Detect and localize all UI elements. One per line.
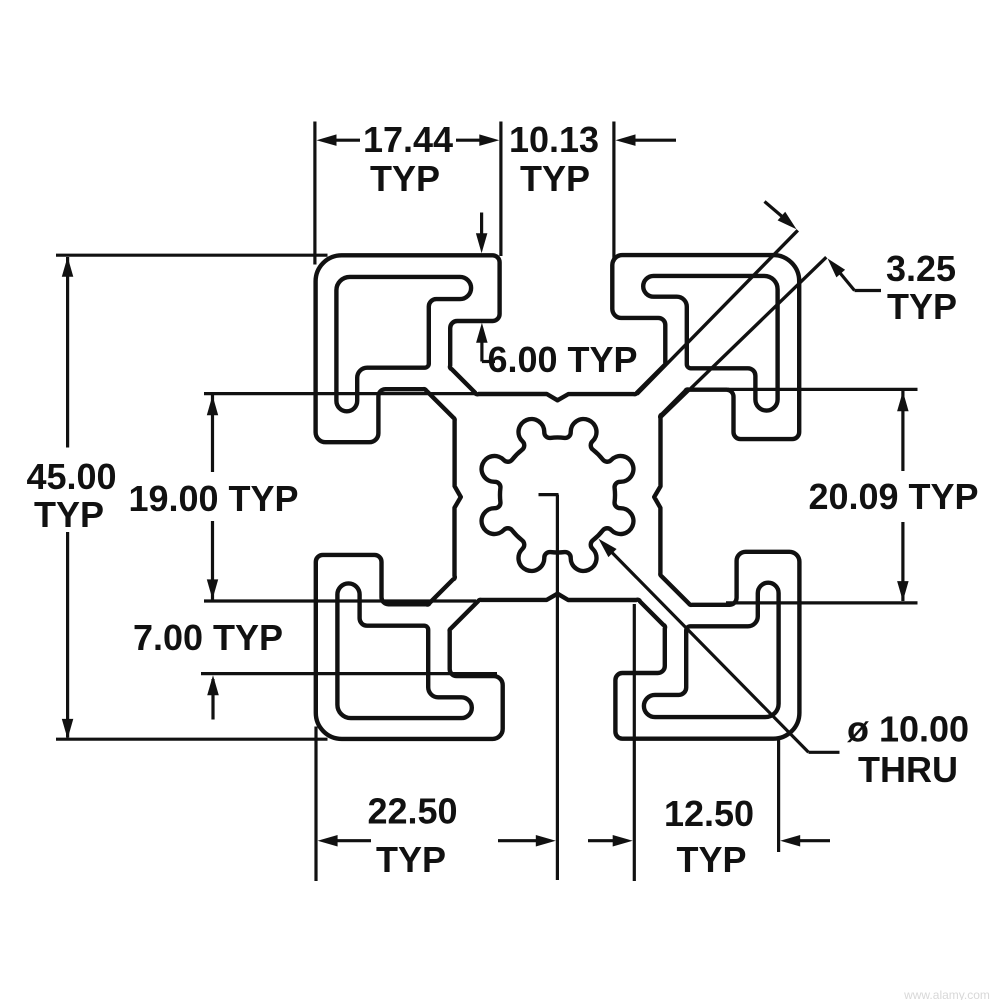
svg-text:45.00: 45.00 xyxy=(26,456,116,497)
leader diameter 10.00 THRU xyxy=(612,552,809,752)
dimension line 19.00 with arrows xyxy=(211,395,214,472)
svg-text:6.00 TYP: 6.00 TYP xyxy=(487,339,637,380)
centerline / 22.50 extension line center xyxy=(556,495,559,880)
svg-text:TYP: TYP xyxy=(376,839,446,880)
center splined bore xyxy=(482,419,634,571)
dimension 45.00 extension line bottom xyxy=(56,738,328,741)
dimension 12.50 extension line right xyxy=(777,740,780,852)
dimension 17.44 TYP extension line left xyxy=(313,122,316,265)
svg-text:17.44: 17.44 xyxy=(363,119,453,160)
dimension 20.09 extension line top xyxy=(728,388,918,391)
svg-text:TYP: TYP xyxy=(887,286,957,327)
svg-text:7.00 TYP: 7.00 TYP xyxy=(133,617,283,658)
svg-text:TYP: TYP xyxy=(34,494,104,535)
dimension 17.44/10.13 extension line middle xyxy=(499,122,502,257)
extrusion outer contour with T-slots xyxy=(316,255,800,739)
svg-text:22.50: 22.50 xyxy=(367,791,457,832)
svg-text:10.13: 10.13 xyxy=(509,119,599,160)
dimension line 12.50 outside arrows xyxy=(588,839,616,842)
svg-text:20.09 TYP: 20.09 TYP xyxy=(808,476,978,517)
dimension 12.50 extension line left xyxy=(633,604,636,881)
inner L-channel void top-left block xyxy=(336,277,471,411)
svg-text:3.25: 3.25 xyxy=(886,248,956,289)
3.25 arrow lower with leader to label xyxy=(838,271,855,291)
svg-text:12.50: 12.50 xyxy=(664,793,754,834)
dimension 10.13 extension line right xyxy=(612,122,615,263)
svg-text:TYP: TYP xyxy=(520,158,590,199)
svg-text:THRU: THRU xyxy=(858,749,958,790)
dimension line 22.50 with arrows xyxy=(334,839,371,842)
svg-text:TYP: TYP xyxy=(676,839,746,880)
center mark tick xyxy=(539,493,559,496)
dimension 19.00 extension line top xyxy=(204,392,476,395)
dimension line 20.09 with arrows xyxy=(901,391,904,471)
6.00 TYP arrow above top face pointing down xyxy=(480,213,483,239)
dimension 20.09 extension line bottom xyxy=(726,601,918,604)
svg-text:TYP: TYP xyxy=(370,158,440,199)
svg-text:ø 10.00: ø 10.00 xyxy=(847,709,969,750)
svg-text:19.00 TYP: 19.00 TYP xyxy=(128,478,298,519)
dimension line 7.00 outside arrow below xyxy=(211,679,214,720)
3.25 arrow upper xyxy=(765,202,786,220)
inner L-channel void bottom-right block xyxy=(644,583,779,717)
dimension line 10.13 outside arrow right xyxy=(632,139,676,142)
inner L-channel void top-right block xyxy=(643,276,777,411)
leader 6.00 TYP arrow below shelf xyxy=(480,338,483,362)
dimension line 17.44 with arrows xyxy=(333,139,360,142)
dimension line 45.00 vertical with arrows xyxy=(66,257,69,448)
dimension 19.00 extension line bottom xyxy=(204,599,476,602)
dimension 7.00 extension line bottom xyxy=(201,672,497,675)
inner L-channel void bottom-left block xyxy=(337,583,471,718)
dimension 3.25 diagonal extension line 2 xyxy=(661,257,826,417)
dimension 22.50 extension line left xyxy=(314,727,317,882)
dimension 45.00 extension line top xyxy=(56,254,328,257)
svg-text:www.alamy.com: www.alamy.com xyxy=(903,988,990,1000)
dimension 3.25 diagonal extension line 1 xyxy=(637,230,798,394)
